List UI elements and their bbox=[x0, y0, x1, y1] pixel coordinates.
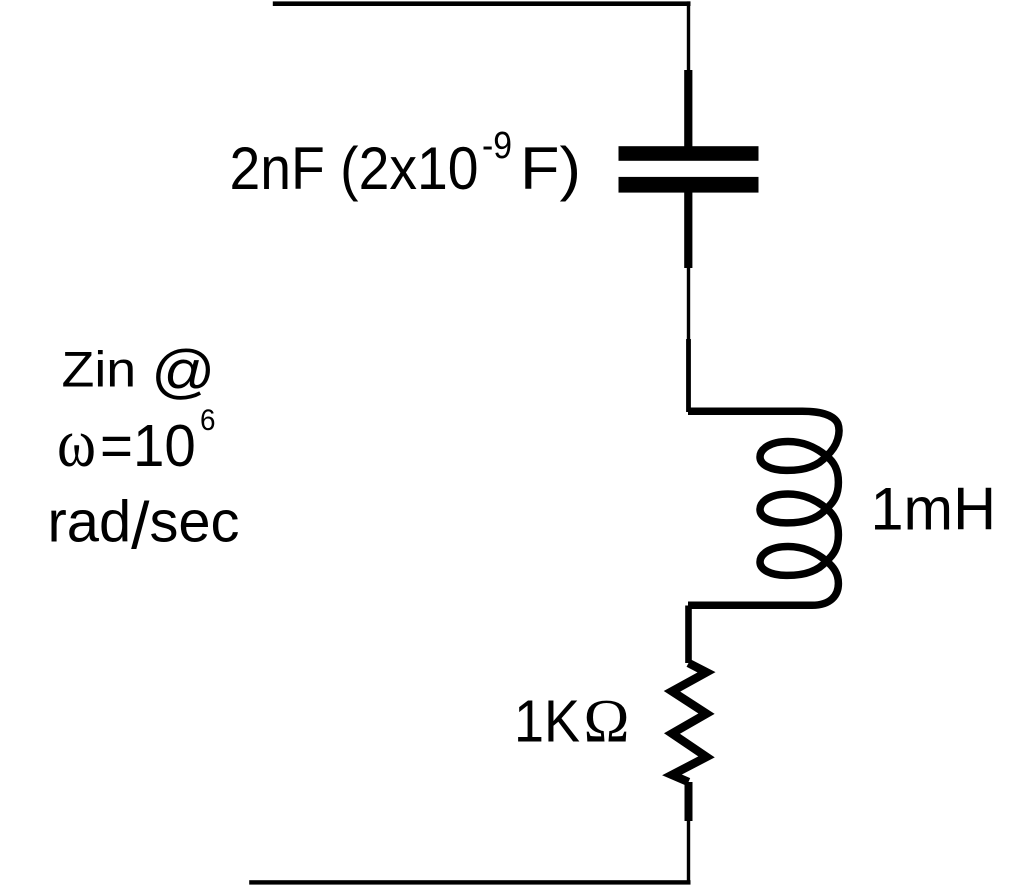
svg-text:-9: -9 bbox=[482, 125, 512, 167]
wire vertical top (node in) bbox=[687, 1, 690, 70]
capacitor C 2nF top lead bbox=[684, 70, 692, 147]
capacitor C 2nF bottom lead bbox=[684, 192, 692, 268]
wire capacitor to inductor bbox=[687, 268, 690, 339]
capacitor C 2nF bottom plate bbox=[619, 177, 759, 193]
capacitor C 2nF top plate bbox=[619, 146, 759, 161]
wire resistor to bottom rail bbox=[687, 821, 690, 881]
inductor L1 coil bbox=[688, 411, 839, 605]
svg-text:6: 6 bbox=[200, 404, 216, 437]
svg-text:Ω: Ω bbox=[584, 689, 630, 756]
svg-text:=10: =10 bbox=[100, 413, 196, 479]
wire top horizontal bbox=[273, 1, 691, 6]
inductor L1 bottom lead wire bbox=[685, 606, 692, 664]
svg-text:Zin @: Zin @ bbox=[62, 337, 216, 404]
wire bottom horizontal bbox=[249, 880, 690, 884]
svg-text:1mH: 1mH bbox=[871, 476, 997, 543]
svg-text:2nF (2x10: 2nF (2x10 bbox=[230, 135, 479, 202]
resistor R 1K zigzag bbox=[672, 663, 707, 782]
svg-text:1K: 1K bbox=[514, 689, 580, 755]
svg-text:F): F) bbox=[520, 135, 581, 202]
svg-text:ω: ω bbox=[57, 405, 96, 481]
inductor L1 top lead wire bbox=[686, 339, 691, 412]
svg-text:rad/sec: rad/sec bbox=[48, 489, 240, 563]
resistor R 1K bottom lead bbox=[685, 782, 693, 821]
